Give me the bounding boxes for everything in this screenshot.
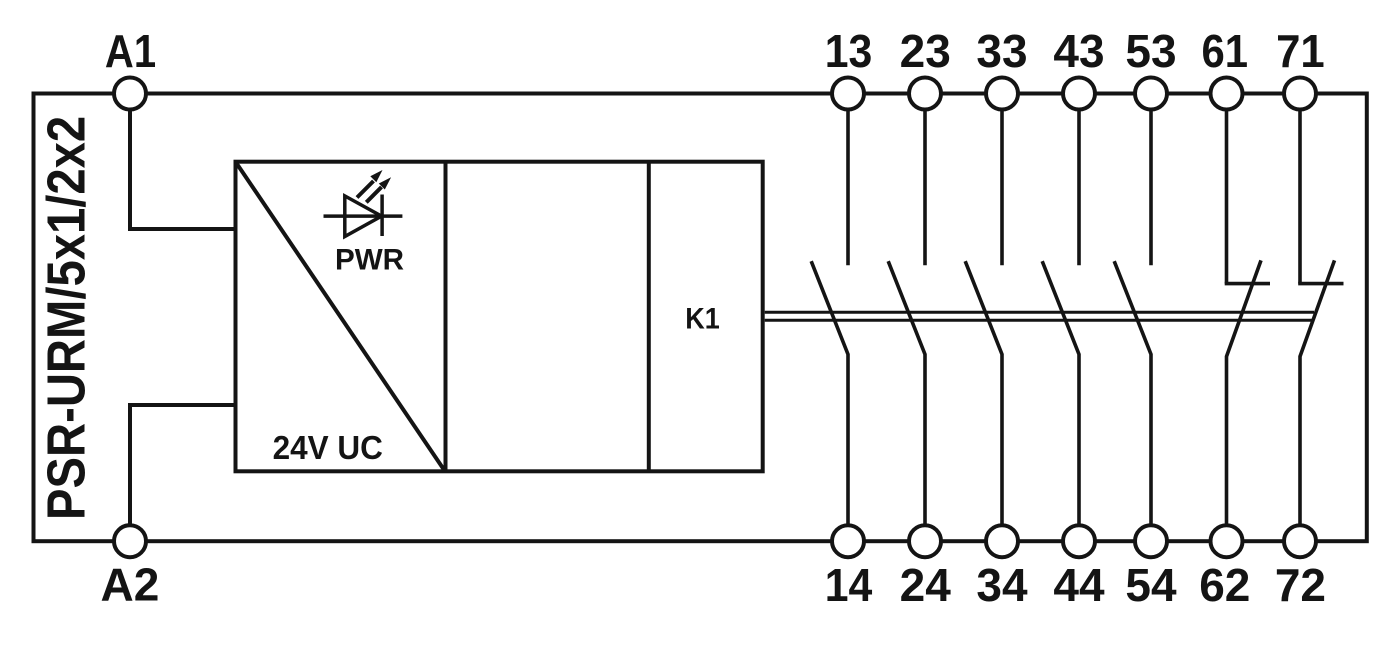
svg-text:33: 33: [976, 25, 1027, 77]
svg-text:62: 62: [1199, 559, 1250, 611]
svg-text:43: 43: [1053, 25, 1104, 77]
svg-text:71: 71: [1276, 25, 1325, 77]
svg-text:A1: A1: [105, 26, 156, 77]
svg-text:44: 44: [1053, 559, 1105, 611]
svg-text:53: 53: [1125, 25, 1176, 77]
svg-text:23: 23: [900, 25, 951, 77]
svg-text:72: 72: [1275, 559, 1326, 611]
svg-text:34: 34: [976, 559, 1028, 611]
svg-text:PSR-URM/5x1/2x2: PSR-URM/5x1/2x2: [35, 116, 96, 520]
svg-text:61: 61: [1202, 26, 1249, 77]
svg-text:14: 14: [825, 561, 873, 612]
svg-text:PWR: PWR: [335, 243, 404, 276]
svg-text:54: 54: [1125, 559, 1177, 611]
svg-text:K1: K1: [685, 302, 720, 336]
svg-text:A2: A2: [100, 559, 159, 611]
svg-text:24V UC: 24V UC: [273, 429, 383, 466]
svg-text:13: 13: [825, 27, 873, 78]
svg-text:24: 24: [900, 559, 952, 611]
